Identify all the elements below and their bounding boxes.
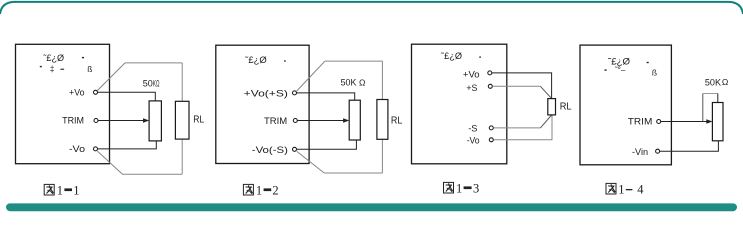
svg-text:50K: 50K bbox=[341, 78, 357, 88]
wire -S horizontal bbox=[494, 127, 541, 129]
module header dot bbox=[647, 62, 649, 63]
pin -S circle bbox=[489, 126, 493, 130]
module header dot bbox=[479, 57, 481, 58]
svg-text:50: 50 bbox=[143, 79, 153, 89]
wire hook to pot top bbox=[717, 94, 719, 103]
wire gray loop right upper bbox=[181, 63, 183, 101]
svg-text:KΩ: KΩ bbox=[153, 79, 160, 89]
wire gray loop right lower bbox=[381, 139, 383, 173]
wire -S diagonal to RL bottom bbox=[540, 115, 551, 128]
svg-text:3: 3 bbox=[473, 182, 479, 196]
wire gray loop right upper bbox=[381, 61, 383, 100]
wire TRIM to wiper bbox=[297, 120, 344, 122]
wire -Vo to pot bottom bbox=[297, 140, 357, 149]
wire +Vo to pot top bbox=[98, 92, 156, 101]
svg-text:˜°–: ˜°– bbox=[614, 66, 626, 75]
wire gray loop top bbox=[125, 62, 182, 64]
wire -Vin to pot bottom bbox=[660, 141, 719, 151]
wire -Vo to pot bottom bbox=[98, 141, 157, 149]
wire gray loop bottom bbox=[324, 172, 382, 174]
page top border (teal rounded frame top) bbox=[0, 2, 743, 14]
svg-text:1: 1 bbox=[256, 184, 262, 198]
svg-text:50K: 50K bbox=[705, 77, 721, 87]
wiper arrowhead bbox=[143, 118, 149, 123]
caption 图1-4 bbox=[606, 183, 644, 197]
wire gray loop bottom bbox=[123, 173, 183, 175]
pin +Vo circle bbox=[488, 71, 492, 75]
pin -Vo circle bbox=[489, 138, 493, 142]
wire gray loop diagonal to -Vo bbox=[97, 151, 122, 174]
potentiometer 50K bbox=[149, 101, 161, 141]
potentiometer 50K bbox=[712, 103, 723, 141]
svg-text:4: 4 bbox=[637, 183, 644, 197]
svg-text:˜£¿Ø: ˜£¿Ø bbox=[440, 51, 462, 61]
module header dot bbox=[82, 57, 84, 58]
wiper arrowhead bbox=[343, 118, 349, 123]
module header text line 2 bbox=[605, 69, 607, 70]
svg-text:1: 1 bbox=[456, 182, 462, 196]
svg-text:+Vo: +Vo bbox=[463, 70, 480, 80]
wire +Vo to RL top bbox=[492, 73, 552, 98]
svg-text:-S: -S bbox=[468, 123, 477, 133]
caption 图1-2 bbox=[243, 184, 278, 198]
svg-text:1: 1 bbox=[57, 184, 63, 198]
svg-text:Ω: Ω bbox=[722, 77, 729, 87]
svg-text:TRIM: TRIM bbox=[62, 116, 84, 126]
svg-text:Ω: Ω bbox=[359, 78, 366, 88]
wiper arrowhead bbox=[706, 119, 712, 124]
svg-text:-Vo: -Vo bbox=[467, 136, 480, 146]
resistor RL bbox=[548, 99, 556, 115]
svg-text:RL: RL bbox=[193, 114, 204, 125]
svg-text:RL: RL bbox=[391, 115, 403, 126]
svg-text:+Vo(+S): +Vo(+S) bbox=[244, 89, 288, 99]
svg-text:1: 1 bbox=[73, 184, 79, 198]
pin +Vo(+S) circle bbox=[293, 91, 297, 95]
wire hook top horizontal bbox=[703, 93, 718, 95]
wire -Vo to RL bottom bbox=[494, 115, 552, 140]
wire wiper-to-top hook vertical bbox=[702, 94, 704, 122]
wire +S horizontal bbox=[493, 85, 541, 87]
footer teal bar bbox=[6, 203, 737, 211]
pin -Vo(-S) circle bbox=[293, 147, 297, 151]
svg-text:-Vo(-S): -Vo(-S) bbox=[252, 145, 288, 155]
wire TRIM to wiper bbox=[661, 121, 708, 123]
wire gray loop diagonal from +Vo bbox=[297, 61, 325, 91]
svg-text:RL: RL bbox=[560, 102, 572, 113]
module header text line 2 bbox=[40, 66, 42, 67]
resistor RL bbox=[377, 100, 388, 140]
svg-text:+Vo: +Vo bbox=[69, 88, 84, 98]
pin +S circle bbox=[488, 84, 492, 88]
svg-text:ß: ß bbox=[652, 68, 657, 78]
svg-text:+S: +S bbox=[466, 83, 477, 93]
module box U3 bbox=[412, 44, 507, 164]
module header dot bbox=[284, 60, 286, 61]
wire +Vo to pot top bbox=[297, 93, 355, 100]
svg-text:ß: ß bbox=[87, 64, 92, 74]
svg-text:TRIM: TRIM bbox=[264, 116, 287, 126]
svg-text:-Vo: -Vo bbox=[69, 144, 85, 154]
wire gray loop diagonal to -Vo bbox=[297, 151, 324, 173]
pin +Vo circle bbox=[94, 90, 98, 94]
module box U4 bbox=[580, 45, 671, 165]
svg-text:‡: ‡ bbox=[50, 64, 55, 74]
pin -Vo circle bbox=[94, 147, 98, 151]
wire gray loop diagonal from +Vo bbox=[97, 63, 125, 91]
svg-text:2: 2 bbox=[272, 184, 278, 198]
svg-text:-Vin: -Vin bbox=[632, 147, 648, 157]
header dash bbox=[60, 69, 64, 70]
wire TRIM to wiper bbox=[98, 120, 144, 122]
pin TRIM circle bbox=[657, 120, 661, 124]
resistor RL bbox=[175, 101, 189, 139]
wire +S diagonal to RL top bbox=[540, 86, 551, 98]
module box U2 bbox=[216, 45, 309, 163]
caption 图1-3 bbox=[444, 182, 480, 196]
wire gray loop top bbox=[325, 60, 383, 62]
svg-text:TRIM: TRIM bbox=[628, 117, 653, 127]
wire gray loop right lower bbox=[181, 139, 183, 174]
pin -Vin circle bbox=[656, 149, 660, 153]
pin TRIM circle bbox=[293, 119, 297, 123]
module box U1 bbox=[16, 44, 110, 163]
caption 图1-1 bbox=[44, 184, 79, 198]
svg-text:˜£¿Ø: ˜£¿Ø bbox=[42, 53, 64, 63]
pin TRIM circle bbox=[94, 119, 98, 123]
svg-text:˜£¿Ø: ˜£¿Ø bbox=[244, 55, 267, 65]
potentiometer 50K bbox=[349, 100, 360, 140]
svg-text:1: 1 bbox=[618, 183, 624, 197]
